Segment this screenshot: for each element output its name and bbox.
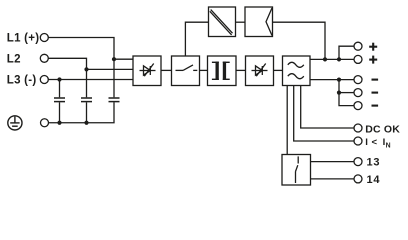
- svg-text:14: 14: [367, 174, 381, 186]
- wire filter plus output: [310, 58, 354, 60]
- wire filter to I<IN: [294, 86, 354, 142]
- wire minus branch 2: [339, 92, 354, 94]
- wire relay to terminal 14: [311, 178, 355, 180]
- terminal L2: [40, 54, 48, 62]
- svg-text:13: 13: [367, 157, 381, 169]
- switch S1 box: [172, 56, 200, 86]
- booster A1 box: [209, 7, 236, 37]
- booster A1 diagonal symbol: [210, 10, 233, 35]
- wire filter to DC OK: [301, 86, 354, 129]
- node minus junction 1: [337, 78, 341, 82]
- label minus 3: [372, 105, 379, 107]
- diode D1 box: [246, 56, 274, 86]
- wire booster to comparator: [236, 21, 246, 23]
- label minus 2: [372, 92, 379, 94]
- filter U2 box: [283, 56, 311, 86]
- wire relay to terminal 13: [311, 161, 355, 163]
- wire diode to filter: [274, 69, 283, 71]
- wire booster input from switch: [185, 22, 208, 56]
- label plus 1: [369, 43, 377, 51]
- filter U2 wave symbols: [288, 62, 304, 78]
- wire filter minus output: [310, 79, 354, 81]
- label minus 1: [372, 79, 379, 81]
- svg-text:I<IN: I<IN: [365, 137, 390, 149]
- terminal I<IN: [354, 137, 362, 145]
- terminal L3: [40, 76, 48, 84]
- terminal plus 2: [354, 55, 362, 63]
- node plus branch junction: [337, 57, 341, 61]
- terminal 14: [354, 175, 362, 183]
- svg-text:L2: L2: [7, 53, 21, 65]
- relay K1 contact symbol: [296, 156, 299, 183]
- terminal 13: [354, 158, 362, 166]
- wire L3 to rectifier: [48, 79, 133, 81]
- label DC OK: [365, 123, 400, 135]
- label 14: [367, 174, 381, 186]
- rectifier U1 diode symbol: [140, 64, 156, 77]
- node C1/PE rail junction: [57, 121, 61, 125]
- terminal minus 1: [354, 76, 362, 84]
- wire C2 drop: [86, 69, 88, 97]
- node L2/C2 junction: [84, 67, 88, 71]
- capacitor C3: [109, 98, 120, 102]
- wire C2 to PE rail: [86, 102, 88, 122]
- wire comparator to output node: [273, 22, 326, 59]
- capacitor C2: [81, 98, 92, 102]
- terminal L1: [40, 34, 48, 42]
- label 13: [367, 157, 381, 169]
- terminal plus 1: [354, 42, 362, 50]
- switch S1 contact symbol: [176, 65, 198, 71]
- terminal DC OK: [354, 124, 362, 132]
- wire L2 to rectifier: [48, 58, 133, 69]
- diode D1 symbol: [252, 64, 268, 77]
- comparator A2 box: [245, 7, 273, 37]
- ground PE symbol: [8, 116, 22, 130]
- wire C3 drop: [113, 59, 115, 97]
- transformer T1 box: [208, 56, 237, 86]
- wire C1 drop: [59, 80, 61, 98]
- relay K1 box: [282, 155, 311, 186]
- label L2: [7, 53, 21, 65]
- wire transformer to diode: [236, 69, 246, 71]
- wire C3 to PE rail: [49, 102, 115, 122]
- wire plus branch to first plus terminal: [339, 46, 354, 59]
- svg-text:L3 (-): L3 (-): [7, 75, 37, 87]
- terminal minus 3: [354, 102, 362, 110]
- wire rectifier to switch: [161, 69, 172, 71]
- label I<IN: [365, 137, 390, 149]
- wire filter to relay: [286, 86, 288, 155]
- terminal minus 2: [354, 89, 362, 97]
- svg-text:DC OK: DC OK: [365, 123, 400, 135]
- node feedback junction: [323, 57, 327, 61]
- node minus junction 2: [337, 91, 341, 95]
- node C2/PE rail junction: [84, 121, 88, 125]
- wire switch to transformer: [200, 69, 208, 71]
- capacitor C1: [54, 98, 65, 102]
- label L3 (-): [7, 75, 37, 87]
- rectifier U1 box: [133, 56, 161, 86]
- label plus 2: [369, 56, 377, 64]
- transformer T1 winding symbol: [212, 62, 230, 80]
- wire minus chain: [339, 80, 354, 106]
- terminal PE: [41, 119, 49, 127]
- wire C1 to PE rail: [59, 102, 61, 122]
- wire L1 to rectifier: [48, 38, 133, 60]
- node L1/C3 junction: [112, 57, 116, 61]
- comparator A2 chevron symbol: [266, 8, 272, 36]
- svg-text:L1 (+): L1 (+): [7, 33, 40, 45]
- node L3/C1 junction: [57, 77, 61, 81]
- label L1 (+): [7, 33, 40, 45]
